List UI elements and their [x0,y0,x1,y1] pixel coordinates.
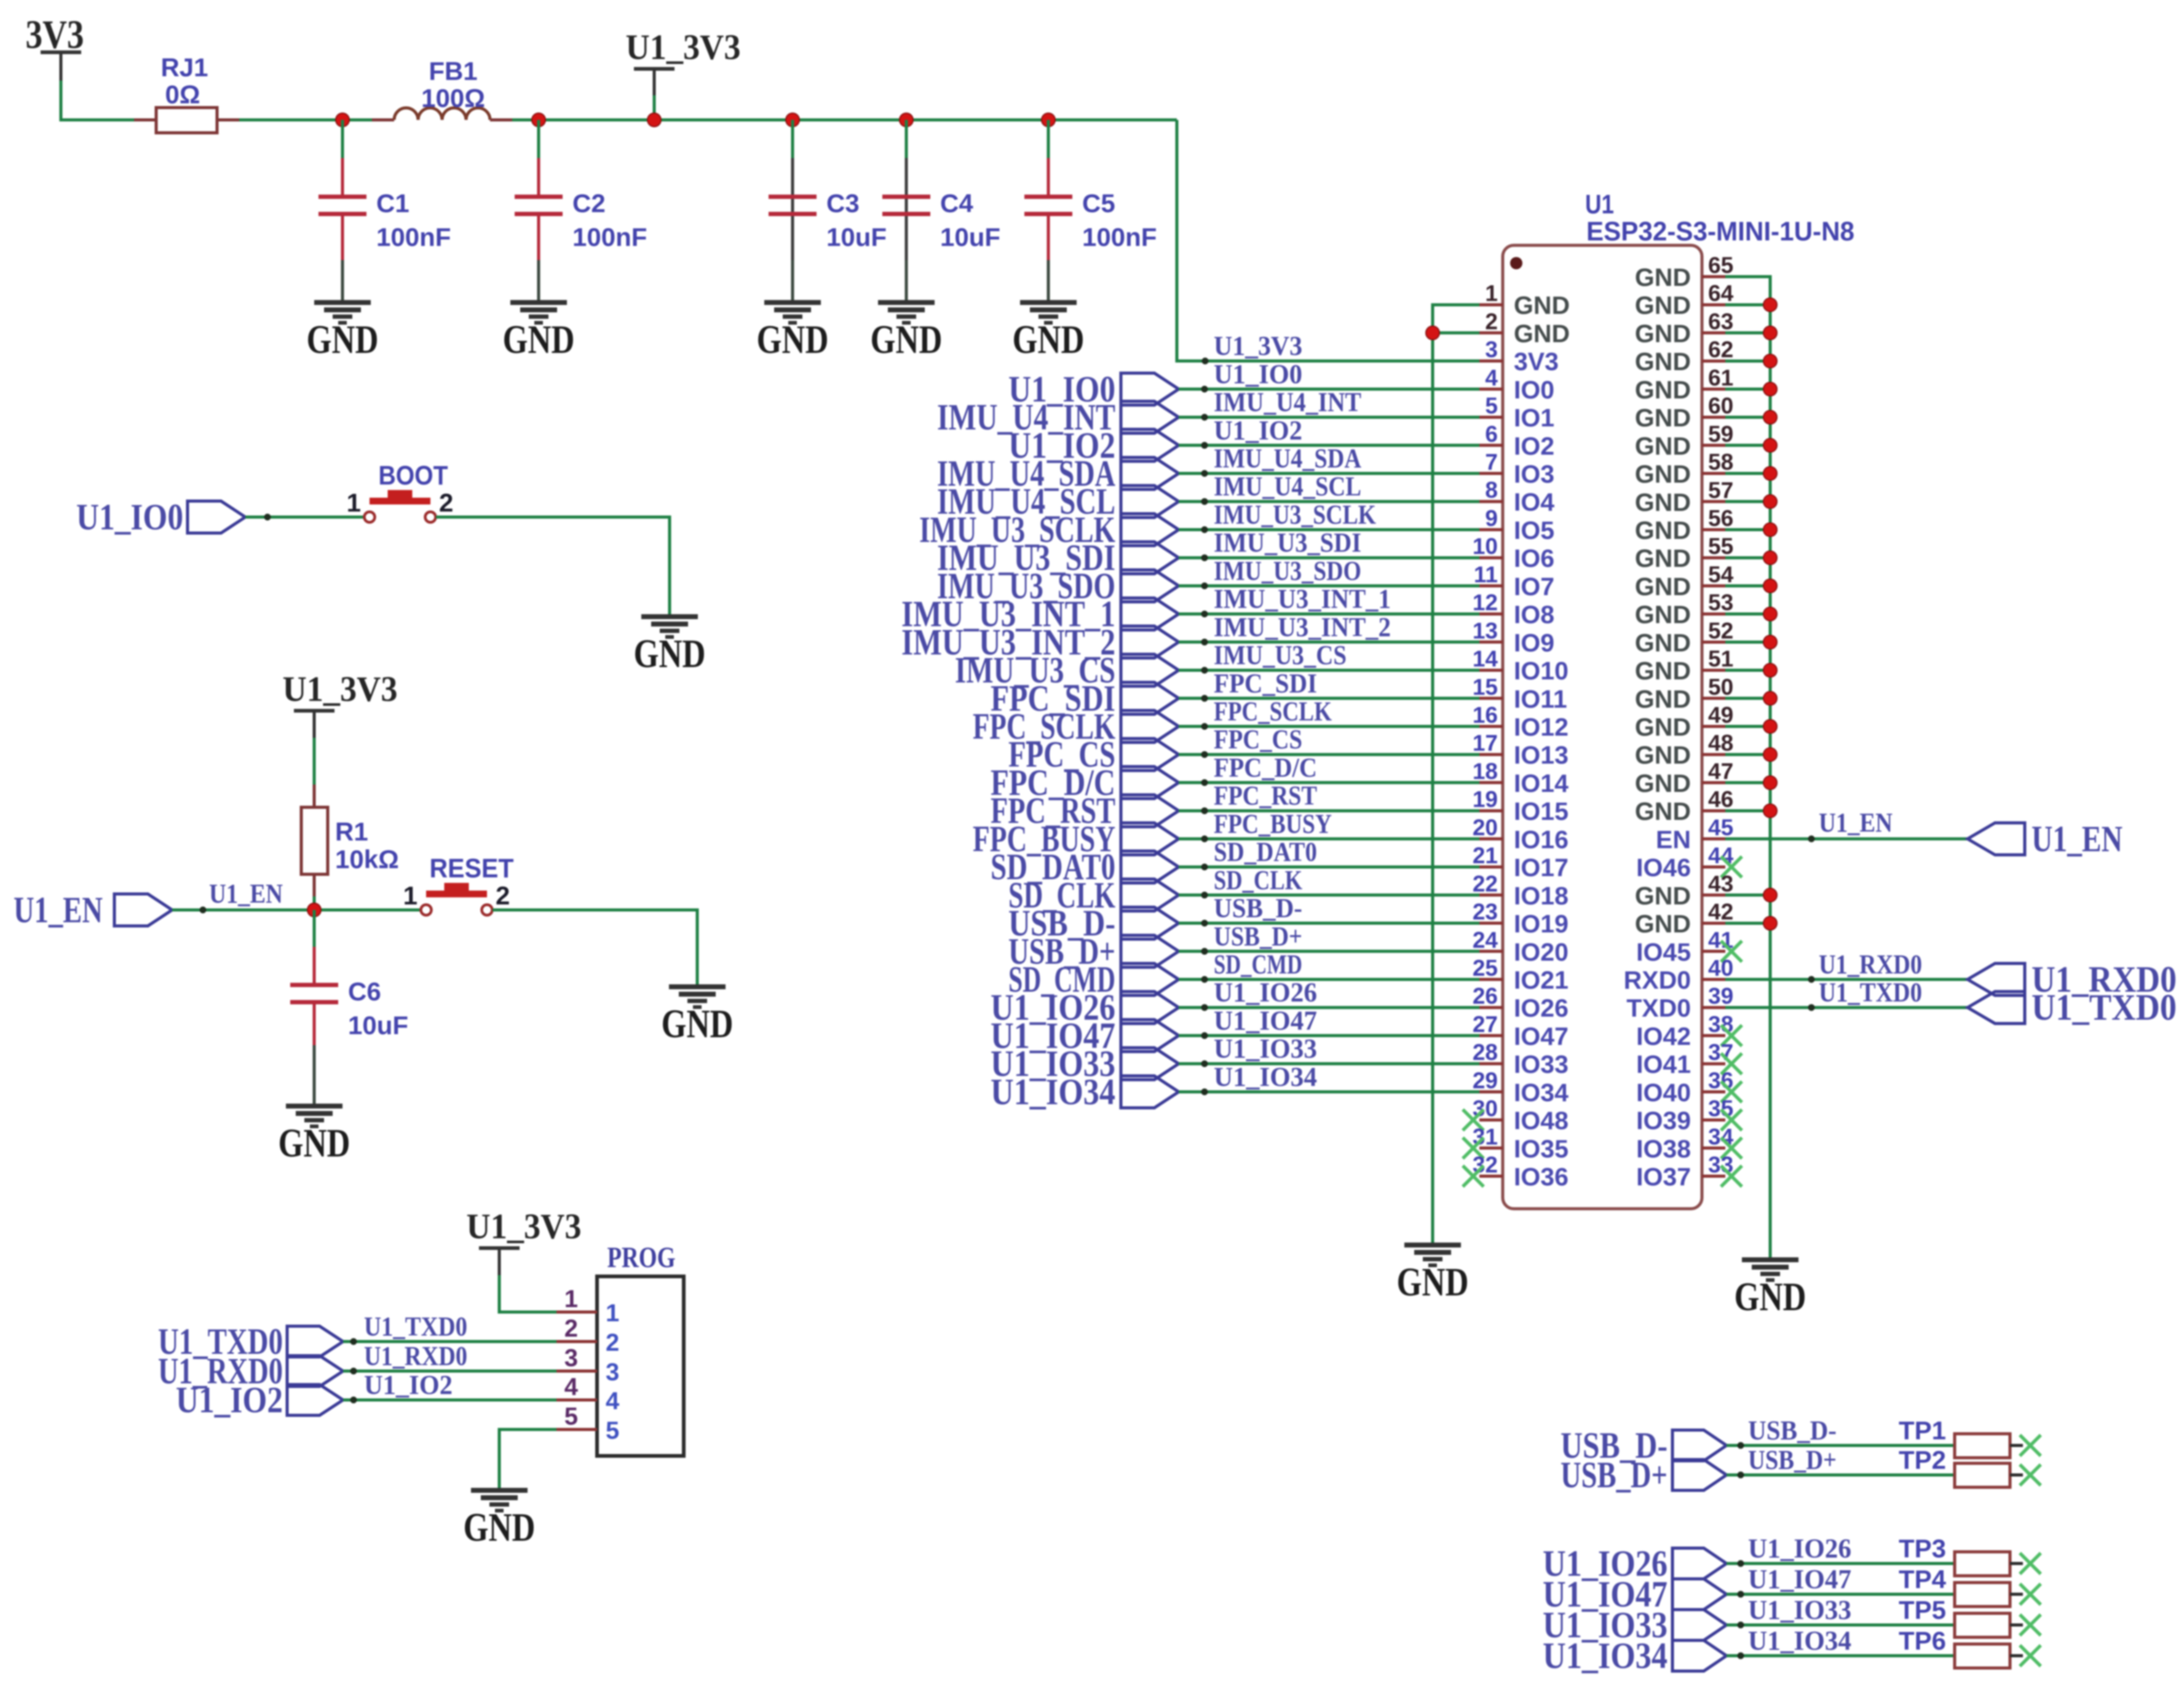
svg-text:U1_IO2: U1_IO2 [364,1370,453,1400]
svg-text:U1_EN: U1_EN [1819,807,1893,837]
svg-text:20: 20 [1473,815,1498,840]
net label U1_IO47 (U1 pin 27) [991,1015,1179,1056]
capacitor C4 10uF [882,158,1000,260]
U1 pin 26 (IO26) [1473,984,1569,1022]
svg-text:IO46: IO46 [1636,853,1691,882]
wire FPC_SCLK to U1 pin 16 [1179,697,1479,730]
svg-text:GND: GND [1635,910,1691,938]
svg-text:IMU_U3_SCLK: IMU_U3_SCLK [1214,500,1376,530]
svg-text:U1_IO34: U1_IO34 [1748,1626,1851,1656]
net label USB_D- (tp) [1561,1425,1727,1466]
wire C1 to ground [341,260,344,302]
junction right bus pin 62 [1763,354,1777,368]
svg-text:10uF: 10uF [348,1011,408,1040]
U1 pin 53 (GND) [1635,590,1733,629]
svg-text:54: 54 [1708,562,1734,587]
svg-text:55: 55 [1708,534,1733,559]
U1 pin 14 (IO10) [1473,646,1569,685]
svg-text:TP5: TP5 [1899,1595,1946,1624]
svg-text:U1_IO33: U1_IO33 [1214,1034,1317,1064]
svg-text:17: 17 [1473,730,1498,756]
net label U1_IO0 (U1 pin 4) [1008,369,1179,409]
U1 pin 11 (IO7) [1474,562,1554,601]
svg-text:IMU_U4_SCL: IMU_U4_SCL [1214,472,1361,502]
capacitor C2 100nF [515,158,647,260]
U1 pin 63 (GND) [1635,309,1733,347]
net label U1_IO47 (tp) [1543,1574,1727,1615]
U1 pin 58 (GND) [1635,449,1733,488]
wire FPC_RST to U1 pin 19 [1179,781,1479,815]
junction right bus pin 53 [1763,607,1777,621]
svg-text:IMU_U3_INT_2: IMU_U3_INT_2 [1214,612,1391,642]
svg-text:IO8: IO8 [1514,601,1554,629]
U1 pin 35 (IO39) [1636,1096,1742,1135]
net label U1_EN (right) [1968,818,2123,859]
U1 pin 34 (IO38) [1636,1124,1742,1163]
ground symbol (PROG) [464,1490,536,1550]
U1 pin 31 (IO35) [1463,1124,1569,1163]
svg-text:R1: R1 [335,817,368,846]
svg-text:GND: GND [757,317,829,362]
test pad TP6 [1955,1644,2023,1668]
svg-text:IMU_U3_INT_1: IMU_U3_INT_1 [1214,584,1391,614]
svg-text:100nF: 100nF [1082,223,1157,251]
net label FPC_D/C (U1 pin 18) [991,762,1179,803]
junction right bus pin 52 [1763,635,1777,649]
svg-text:U1_IO33: U1_IO33 [1748,1595,1851,1625]
wire FPC_BUSY to U1 pin 20 [1179,808,1479,842]
svg-text:GND: GND [1635,797,1691,826]
svg-text:C3: C3 [826,189,860,218]
net label USB_D- (U1 pin 23) [1008,903,1179,944]
svg-text:IO36: IO36 [1514,1163,1569,1191]
svg-text:19: 19 [1473,787,1498,812]
svg-text:SD_DAT0: SD_DAT0 [1214,837,1317,867]
net label IMU_U3_SDO (U1 pin 11) [937,566,1179,606]
junction right bus pin 61 [1763,382,1777,396]
svg-text:28: 28 [1473,1040,1498,1065]
wire USB_D+ to U1 pin 24 [1179,921,1479,955]
capacitor C5 100nF [1024,158,1157,260]
svg-text:U1_TXD0: U1_TXD0 [2032,987,2177,1028]
svg-text:RXD0: RXD0 [1624,966,1691,994]
wire U1 pins 1,2 to left ground bus [1433,305,1479,1245]
junction node C4 [900,113,913,127]
svg-text:1: 1 [606,1300,619,1327]
svg-text:FPC_SCLK: FPC_SCLK [1214,697,1332,727]
svg-text:U1_IO34: U1_IO34 [1543,1635,1668,1676]
junction right bus pin 50 [1763,692,1777,705]
svg-text:TP1: TP1 [1899,1416,1946,1445]
PROG pin 3 [556,1345,619,1386]
svg-text:BOOT: BOOT [379,461,448,491]
svg-text:50: 50 [1708,674,1733,700]
junction right bus pin 63 [1763,326,1777,339]
svg-text:GND: GND [464,1505,536,1550]
svg-text:IO48: IO48 [1514,1107,1569,1135]
svg-text:43: 43 [1708,871,1733,896]
U1 pin 16 (IO12) [1473,703,1569,741]
ground symbol (U1 right) [1735,1260,1806,1319]
U1 pin 37 (IO41) [1636,1040,1742,1078]
wire U1_IO26 to TP3 [1727,1533,1955,1567]
net label USB_D+ (tp) [1561,1455,1727,1495]
svg-text:U1_IO0: U1_IO0 [76,497,183,537]
junction right bus pin 55 [1763,551,1777,564]
capacitor C3 10uF [769,158,887,260]
svg-text:GND: GND [1635,657,1691,685]
svg-text:GND: GND [503,317,575,362]
net label IMU_U4_INT (U1 pin 5) [937,397,1179,438]
junction right bus pin 56 [1763,523,1777,537]
svg-text:2: 2 [439,488,453,517]
U1 pin 23 (IO19) [1473,899,1569,938]
svg-text:GND: GND [1635,319,1691,347]
wire U1_3V3 to R1 [313,738,316,785]
svg-text:27: 27 [1473,1011,1498,1037]
svg-text:3: 3 [564,1345,578,1372]
svg-text:IMU_U4_INT: IMU_U4_INT [1214,387,1361,417]
wire IMU_U3_SCLK to U1 pin 9 [1179,500,1479,534]
svg-text:IMU_U4_SDA: IMU_U4_SDA [1214,443,1361,473]
net name U1_3V3 on wire [1202,331,1303,365]
net label FPC_RST (U1 pin 19) [991,791,1179,831]
svg-text:U1: U1 [1585,189,1614,219]
wire PROG pin 5 to ground [499,1429,556,1490]
wire U1_IO2 to PROG pin 4 [343,1370,556,1404]
PROG pin 5 [556,1403,619,1444]
svg-text:USB_D-: USB_D- [1748,1415,1837,1445]
svg-text:1: 1 [347,488,361,517]
junction right bus pin 46 [1763,804,1777,818]
svg-text:42: 42 [1708,899,1733,925]
svg-text:TP4: TP4 [1899,1565,1947,1594]
junction node C5 [1042,113,1055,127]
svg-text:100Ω: 100Ω [421,84,485,113]
U1 pin 21 (IO17) [1473,843,1569,882]
wire C6 to ground [313,1045,316,1106]
wire IMU_U3_SDI to U1 pin 10 [1179,528,1479,561]
U1 pin 2 (GND) [1479,309,1570,347]
svg-text:6: 6 [1485,421,1498,446]
svg-text:FPC_SDI: FPC_SDI [1214,668,1317,698]
U1 pin 40 (RXD0) [1624,955,1734,994]
net label U1_RXD0 (prog) [158,1351,343,1391]
net label IMU_U3_SCLK (U1 pin 9) [919,510,1179,550]
svg-text:51: 51 [1708,646,1733,671]
svg-text:57: 57 [1708,478,1733,503]
svg-text:U1_IO47: U1_IO47 [1214,1005,1317,1035]
svg-text:C4: C4 [940,189,973,218]
wire BOOT to ground [436,517,670,617]
svg-text:1: 1 [1485,281,1498,306]
net label U1_IO33 (U1 pin 28) [991,1043,1179,1084]
svg-text:GND: GND [1635,685,1691,713]
net label U1_IO34 (tp) [1543,1635,1727,1676]
capacitor C6 10uF [290,910,408,1045]
wire U1_3V3 rail down to U1 pin 3 [1177,120,1479,361]
wire from 3V3 rail to C5 [1047,120,1050,158]
svg-text:IMU_U3_SDO: IMU_U3_SDO [1214,556,1361,586]
wire FPC_SDI to U1 pin 15 [1179,668,1479,702]
svg-text:GND: GND [307,317,379,362]
wire IMU_U4_INT to U1 pin 5 [1179,387,1479,421]
U1 pin 43 (GND) [1635,871,1733,910]
U1 pin 51 (GND) [1635,646,1733,685]
U1 pin 3 (3V3) [1479,337,1559,376]
svg-text:GND: GND [1635,488,1691,516]
U1 pin 55 (GND) [1635,534,1733,572]
U1 pin 29 (IO34) [1473,1068,1569,1107]
wire C3 to ground [791,260,794,302]
svg-text:4: 4 [564,1374,579,1401]
junction right bus pin 42 [1763,917,1777,930]
svg-text:IO16: IO16 [1514,825,1569,853]
wire USB_D+ to TP2 [1727,1445,1955,1479]
push button BOOT [347,461,454,523]
ground symbol (BOOT) [634,617,706,676]
svg-text:IO21: IO21 [1514,966,1569,994]
svg-text:FB1: FB1 [429,57,477,85]
U1 pin 65 (GND) [1635,253,1733,291]
svg-text:U1_TXD0: U1_TXD0 [364,1311,467,1342]
net label FPC_CS (U1 pin 17) [1008,734,1179,775]
svg-text:3V3: 3V3 [1514,347,1559,376]
U1 pin 45 (EN) [1656,815,1733,853]
svg-text:5: 5 [1485,393,1498,419]
junction right bus pin 51 [1763,663,1777,677]
wire U1_TXD0 to PROG pin 2 [343,1311,556,1345]
svg-text:U1_RXD0: U1_RXD0 [364,1341,467,1371]
wire C4 to ground [905,260,908,302]
test pad TP3 [1955,1552,2023,1576]
wire USB_D- to TP1 [1727,1415,1955,1449]
svg-text:TP3: TP3 [1899,1534,1946,1563]
U1 pin 19 (IO15) [1473,787,1569,826]
U1 pin 6 (IO2) [1479,421,1554,460]
wire U1 right GND pins bus to ground [1725,277,1770,1260]
svg-text:14: 14 [1473,646,1498,671]
wire from 3V3 rail to C2 [537,120,540,158]
U1 pin 22 (IO18) [1473,871,1569,910]
svg-text:GND: GND [1635,460,1691,488]
net label U1_EN (left) [14,890,172,930]
wire U1_IO33 to U1 pin 28 [1179,1034,1479,1067]
U1 pin 57 (GND) [1635,478,1733,516]
net label IMU_U4_SCL (U1 pin 8) [937,481,1179,522]
svg-text:GND: GND [1514,291,1570,320]
svg-text:U1_3V3: U1_3V3 [626,27,741,67]
U1 pin 27 (IO47) [1473,1011,1569,1050]
svg-text:FPC_D/C: FPC_D/C [1214,753,1317,783]
wire IMU_U3_INT_1 to U1 pin 12 [1179,584,1479,618]
ground symbol (RESET) [662,987,734,1046]
U1 pin 54 (GND) [1635,562,1734,601]
svg-text:9: 9 [1485,506,1498,531]
U1 pin 41 (IO45) [1636,927,1742,966]
net label FPC_BUSY (U1 pin 20) [973,818,1179,859]
ferrite bead FB1 100R [372,57,512,120]
svg-text:IO19: IO19 [1514,910,1569,938]
wire U1_3V3 to PROG pin 1 [499,1275,556,1312]
svg-text:2: 2 [1485,309,1498,334]
net label U1_IO26 (U1 pin 26) [991,987,1179,1028]
junction right bus pin 60 [1763,411,1777,424]
net label U1_IO0 (boot) [76,497,245,537]
svg-text:IO7: IO7 [1514,572,1554,601]
PROG pin 2 [556,1315,619,1356]
svg-text:13: 13 [1473,618,1498,643]
U1 pin 5 (IO1) [1479,393,1554,432]
svg-text:GND: GND [1514,319,1570,347]
net label SD_DAT0 (U1 pin 21) [991,847,1179,887]
svg-text:100nF: 100nF [572,223,647,251]
svg-text:GND: GND [1635,601,1691,629]
svg-text:USB_D+: USB_D+ [1561,1455,1668,1495]
junction right bus pin 48 [1763,748,1777,761]
svg-text:25: 25 [1473,955,1498,981]
svg-text:46: 46 [1708,787,1733,812]
U1 pin 64 (GND) [1635,281,1734,320]
resistor R1 10k [301,785,399,896]
svg-text:IO40: IO40 [1636,1078,1691,1107]
PROG pin 1 [556,1286,619,1327]
svg-text:10uF: 10uF [826,223,887,251]
svg-text:61: 61 [1708,365,1733,390]
svg-text:U1_3V3: U1_3V3 [1214,331,1302,361]
power flag U1_3V3 (rail) [626,27,741,97]
svg-text:IO2: IO2 [1514,432,1554,460]
junction node U1_EN [307,903,321,917]
junction right bus pin 64 [1763,298,1777,312]
test pad TP5 [1955,1613,2023,1637]
no-connect X (TP5) [2020,1615,2041,1635]
svg-text:RESET: RESET [430,853,514,884]
junction node U1_3V3 [647,113,661,127]
svg-text:C6: C6 [348,977,381,1006]
svg-text:USB_D-: USB_D- [1214,893,1302,923]
wire U1_IO26 to U1 pin 26 [1179,978,1479,1011]
svg-text:22: 22 [1473,871,1498,896]
net label U1_RXD0 (right) [1968,959,2177,1000]
U1 pin 61 (GND) [1635,365,1733,404]
svg-text:GND: GND [1635,347,1691,376]
svg-text:7: 7 [1485,449,1498,475]
U1 pin 24 (IO20) [1473,927,1569,966]
U1 pin 56 (GND) [1635,506,1733,545]
svg-text:GND: GND [871,317,943,362]
svg-text:16: 16 [1473,703,1498,728]
wire SD_DAT0 to U1 pin 21 [1179,837,1479,871]
U1 pin 33 (IO37) [1636,1152,1742,1191]
U1 pin 38 (IO42) [1636,1011,1742,1050]
svg-text:IO20: IO20 [1514,938,1569,966]
svg-text:GND: GND [1397,1260,1469,1305]
resistor RJ1 0R [134,53,239,133]
svg-text:TP2: TP2 [1899,1445,1946,1474]
net label U1_IO34 (U1 pin 29) [991,1072,1179,1112]
U1 pin 62 (GND) [1635,337,1733,376]
svg-text:IO37: IO37 [1636,1163,1691,1191]
svg-text:60: 60 [1708,393,1733,419]
svg-text:1: 1 [403,881,417,910]
wire U1 TXD0 to net label [1725,978,1968,1011]
svg-text:10uF: 10uF [940,223,1000,251]
wire RESET to ground [493,910,697,987]
svg-text:IO14: IO14 [1514,769,1569,797]
svg-text:GND: GND [279,1121,350,1166]
U1 pin 36 (IO40) [1636,1068,1742,1107]
svg-text:TXD0: TXD0 [1626,994,1691,1022]
wire IMU_U3_CS to U1 pin 14 [1179,640,1479,674]
power flag U1_3V3 (R1) [283,669,398,739]
svg-text:23: 23 [1473,899,1498,925]
test pad TP2 [1955,1463,2023,1487]
svg-text:GND: GND [662,1002,734,1046]
svg-text:U1_IO34: U1_IO34 [1214,1062,1317,1092]
svg-text:PROG: PROG [607,1241,676,1274]
svg-text:40: 40 [1708,955,1733,981]
svg-text:U1_IO26: U1_IO26 [1748,1533,1851,1563]
svg-text:USB_D+: USB_D+ [1748,1445,1837,1475]
wire U1_IO0 to BOOT switch [245,514,364,521]
svg-text:IO6: IO6 [1514,544,1554,572]
svg-text:IO38: IO38 [1636,1134,1691,1163]
svg-text:GND: GND [1635,882,1691,910]
U1 pin 46 (GND) [1635,787,1733,826]
wire U1_3V3 flag to rail [653,95,656,120]
svg-text:IO5: IO5 [1514,516,1554,545]
svg-text:IO0: IO0 [1514,376,1554,404]
svg-text:U1_EN: U1_EN [2032,818,2123,859]
wire U1_IO0 to U1 pin 4 [1179,359,1479,393]
net label IMU_U4_SDA (U1 pin 7) [937,453,1179,494]
ground symbol below C3 [757,302,829,362]
U1 pin 12 (IO8) [1473,590,1554,629]
junction right bus pin 58 [1763,467,1777,480]
svg-text:GND: GND [1635,628,1691,657]
svg-text:GND: GND [1635,263,1691,291]
U1 pin 49 (GND) [1635,703,1733,741]
svg-text:IO26: IO26 [1514,994,1569,1022]
svg-text:U1_3V3: U1_3V3 [283,669,398,709]
wire U1_IO33 to TP5 [1727,1595,1955,1629]
svg-text:2: 2 [606,1329,619,1356]
capacitor C1 100nF [318,158,451,260]
net label U1_IO2 (U1 pin 6) [1008,425,1179,465]
wire SD_CLK to U1 pin 22 [1179,865,1479,899]
svg-text:58: 58 [1708,449,1733,475]
net label U1_TXD0 (prog) [158,1321,343,1362]
svg-text:56: 56 [1708,506,1733,531]
svg-text:U1_IO34: U1_IO34 [991,1072,1115,1112]
svg-text:IMU_U3_CS: IMU_U3_CS [1214,640,1347,670]
test pad TP1 [1955,1434,2023,1458]
ground symbol (C6) [279,1106,350,1166]
junction node C1 [336,113,349,127]
svg-text:IO3: IO3 [1514,460,1554,488]
svg-text:U1_IO2: U1_IO2 [176,1380,283,1420]
junction right bus pin 47 [1763,776,1777,789]
svg-text:63: 63 [1708,309,1733,334]
U1 pin 10 (IO6) [1473,534,1554,572]
svg-text:IO41: IO41 [1636,1050,1691,1078]
test pad TP4 [1955,1583,2023,1607]
svg-text:21: 21 [1473,843,1498,868]
no-connect X (TP4) [2020,1584,2041,1605]
wire U1_RXD0 to PROG pin 3 [343,1341,556,1375]
svg-text:U1_IO47: U1_IO47 [1748,1564,1851,1594]
